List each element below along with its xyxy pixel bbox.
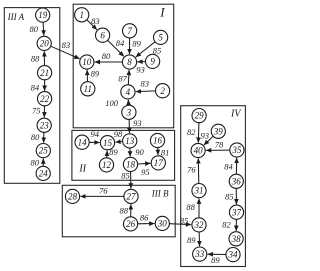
wire 27 to 28 bbox=[80, 195, 124, 197]
svg-text:10: 10 bbox=[82, 57, 92, 67]
node 31 bbox=[192, 184, 206, 198]
svg-text:80: 80 bbox=[29, 24, 38, 34]
svg-text:98: 98 bbox=[114, 129, 123, 139]
node 32 bbox=[192, 218, 206, 232]
wire 21 to 22 bbox=[44, 80, 46, 91]
svg-text:1: 1 bbox=[79, 10, 84, 20]
svg-text:90: 90 bbox=[135, 147, 144, 157]
wire 31 to 40 bbox=[197, 158, 200, 183]
svg-text:76: 76 bbox=[99, 185, 108, 195]
svg-text:4: 4 bbox=[126, 87, 131, 97]
node 10 bbox=[80, 55, 94, 69]
wire 16 to 17 bbox=[157, 148, 159, 155]
wire 2 to 4 bbox=[136, 90, 156, 93]
svg-text:2: 2 bbox=[160, 86, 165, 96]
svg-text:94: 94 bbox=[91, 129, 100, 139]
svg-text:27: 27 bbox=[127, 192, 137, 202]
node 11 bbox=[81, 82, 95, 96]
node 1 bbox=[75, 8, 89, 22]
node 30 bbox=[155, 216, 169, 230]
node 19 bbox=[36, 8, 50, 22]
wire 6 to 8 bbox=[108, 40, 124, 56]
wire 14 to 15 bbox=[89, 141, 99, 143]
node 6 bbox=[96, 28, 110, 42]
wire 36 to 37 bbox=[235, 188, 237, 204]
svg-text:26: 26 bbox=[126, 219, 136, 229]
svg-text:89: 89 bbox=[211, 255, 220, 265]
box II bbox=[72, 130, 175, 180]
wire 5 to 8 bbox=[136, 42, 155, 57]
wire 1 to 6 bbox=[87, 20, 97, 30]
svg-text:9: 9 bbox=[150, 57, 155, 67]
svg-text:39: 39 bbox=[213, 126, 224, 136]
wire 8 to 10 bbox=[95, 61, 123, 63]
svg-text:30: 30 bbox=[157, 219, 168, 229]
svg-text:76: 76 bbox=[187, 165, 196, 175]
svg-text:IV: IV bbox=[230, 108, 242, 119]
node 7 bbox=[123, 24, 137, 38]
wire 23 to 25 bbox=[43, 132, 45, 142]
wire 36 to 35 bbox=[235, 158, 237, 174]
svg-text:III A: III A bbox=[7, 12, 25, 22]
svg-text:83: 83 bbox=[91, 16, 100, 26]
svg-text:17: 17 bbox=[154, 158, 164, 168]
wire 21 to 20 bbox=[43, 51, 45, 65]
svg-text:5: 5 bbox=[158, 33, 163, 43]
svg-text:21: 21 bbox=[40, 68, 49, 78]
node 37 bbox=[229, 205, 243, 219]
wire 4 to 8 bbox=[127, 70, 130, 85]
svg-text:78: 78 bbox=[215, 140, 224, 150]
svg-text:84: 84 bbox=[224, 162, 233, 172]
wire 22 to 23 bbox=[43, 106, 45, 118]
svg-text:31: 31 bbox=[194, 186, 204, 196]
svg-text:95: 95 bbox=[141, 167, 150, 177]
svg-text:86: 86 bbox=[140, 213, 149, 223]
svg-text:11: 11 bbox=[84, 84, 92, 94]
svg-text:12: 12 bbox=[102, 160, 112, 170]
box III A bbox=[4, 8, 60, 184]
wire 24 to 25 bbox=[42, 159, 44, 167]
wire 26 to 27 bbox=[130, 204, 132, 217]
node 17 bbox=[151, 156, 165, 170]
node 24 bbox=[36, 166, 50, 180]
svg-text:35: 35 bbox=[231, 145, 242, 155]
svg-text:83: 83 bbox=[62, 40, 71, 50]
wire 26 to 30 bbox=[138, 223, 155, 225]
svg-text:88: 88 bbox=[31, 54, 40, 64]
svg-text:82: 82 bbox=[222, 219, 231, 229]
wire 7 to 8 bbox=[129, 38, 131, 54]
svg-text:75: 75 bbox=[32, 105, 41, 115]
svg-text:89: 89 bbox=[132, 39, 141, 49]
box IV bbox=[181, 106, 246, 267]
wire 3 to 4 bbox=[127, 100, 129, 105]
wire 29 to 40 bbox=[197, 123, 200, 143]
node 18 bbox=[123, 157, 137, 171]
svg-text:19: 19 bbox=[38, 10, 48, 20]
wire 18 to 17 bbox=[138, 162, 151, 165]
node 25 bbox=[36, 144, 50, 158]
node 14 bbox=[75, 135, 89, 149]
svg-text:22: 22 bbox=[40, 94, 50, 104]
node 40 bbox=[191, 143, 205, 157]
svg-text:89: 89 bbox=[187, 235, 196, 245]
wire 30 to 32 bbox=[169, 223, 191, 226]
node 21 bbox=[38, 66, 52, 80]
svg-text:87: 87 bbox=[118, 74, 127, 84]
wire 9 to 8 bbox=[137, 61, 145, 63]
node 28 bbox=[65, 189, 79, 203]
svg-text:80: 80 bbox=[102, 51, 111, 61]
svg-text:85: 85 bbox=[121, 171, 130, 181]
svg-text:24: 24 bbox=[39, 169, 49, 179]
node 35 bbox=[230, 143, 244, 157]
svg-text:85: 85 bbox=[225, 191, 234, 201]
svg-text:34: 34 bbox=[228, 250, 239, 260]
wire 35 to 40 bbox=[206, 149, 230, 151]
node 39 bbox=[211, 124, 225, 138]
node 22 bbox=[38, 92, 52, 106]
svg-text:II: II bbox=[78, 164, 86, 175]
wire 19 to 20 bbox=[42, 22, 45, 35]
svg-text:40: 40 bbox=[194, 146, 204, 156]
svg-text:28: 28 bbox=[68, 192, 78, 202]
node 3 bbox=[122, 105, 136, 119]
node 38 bbox=[229, 232, 243, 246]
svg-text:3: 3 bbox=[126, 107, 132, 117]
svg-text:15: 15 bbox=[103, 138, 113, 148]
node 23 bbox=[37, 118, 51, 132]
node 16 bbox=[150, 133, 164, 147]
wire 39 to 40 bbox=[204, 136, 213, 145]
svg-text:88: 88 bbox=[120, 206, 129, 216]
node 8 bbox=[122, 55, 136, 69]
wire 3 to 13 bbox=[128, 119, 130, 133]
svg-text:82: 82 bbox=[187, 127, 196, 137]
node 26 bbox=[124, 217, 138, 231]
wire 13 to 18 bbox=[129, 148, 131, 157]
svg-text:81: 81 bbox=[161, 147, 170, 157]
svg-text:7: 7 bbox=[127, 26, 132, 36]
svg-text:14: 14 bbox=[78, 137, 88, 147]
node 15 bbox=[100, 136, 114, 150]
svg-text:83: 83 bbox=[141, 79, 150, 89]
node 13 bbox=[123, 134, 137, 148]
wire 32 to 33 bbox=[198, 232, 200, 246]
svg-text:84: 84 bbox=[31, 83, 40, 93]
svg-text:13: 13 bbox=[125, 136, 135, 146]
svg-text:85: 85 bbox=[180, 216, 189, 226]
node 27 bbox=[124, 189, 138, 203]
node 2 bbox=[156, 84, 170, 98]
node 33 bbox=[193, 247, 207, 261]
svg-text:33: 33 bbox=[194, 249, 205, 259]
wire 37 to 38 bbox=[235, 219, 237, 231]
node 4 bbox=[121, 85, 135, 99]
svg-text:I: I bbox=[159, 4, 165, 19]
svg-text:88: 88 bbox=[186, 202, 195, 212]
svg-text:III B: III B bbox=[151, 189, 169, 199]
svg-text:36: 36 bbox=[231, 176, 242, 186]
svg-text:89: 89 bbox=[91, 69, 100, 79]
box III B bbox=[62, 185, 175, 237]
svg-text:29: 29 bbox=[195, 111, 205, 121]
node 5 bbox=[154, 30, 168, 44]
node 12 bbox=[99, 158, 113, 172]
svg-text:93: 93 bbox=[136, 64, 145, 74]
wire 20 to 10 bbox=[51, 46, 80, 59]
svg-text:80: 80 bbox=[30, 158, 39, 168]
svg-text:93: 93 bbox=[200, 130, 209, 140]
svg-text:80: 80 bbox=[31, 132, 40, 142]
node 20 bbox=[37, 36, 51, 50]
wire 13 to 15 bbox=[115, 141, 122, 144]
svg-text:18: 18 bbox=[126, 160, 136, 170]
wire 11 to 10 bbox=[86, 70, 88, 82]
wire 34 to 33 bbox=[208, 253, 226, 255]
node 29 bbox=[192, 109, 206, 123]
svg-text:23: 23 bbox=[40, 120, 50, 130]
node 36 bbox=[229, 174, 243, 188]
svg-text:38: 38 bbox=[231, 234, 242, 244]
box I bbox=[73, 4, 174, 128]
svg-text:100: 100 bbox=[105, 98, 119, 108]
wire 32 to 31 bbox=[198, 199, 200, 218]
svg-text:25: 25 bbox=[39, 146, 49, 156]
svg-text:84: 84 bbox=[116, 38, 125, 48]
svg-text:6: 6 bbox=[100, 30, 105, 40]
svg-text:93: 93 bbox=[133, 118, 142, 128]
svg-text:16: 16 bbox=[153, 136, 163, 146]
wire 18 to 27 bbox=[130, 172, 132, 189]
svg-text:20: 20 bbox=[40, 39, 50, 49]
svg-text:37: 37 bbox=[231, 207, 242, 217]
svg-text:8: 8 bbox=[127, 57, 132, 67]
svg-text:32: 32 bbox=[194, 220, 205, 230]
node 9 bbox=[146, 54, 160, 68]
node 34 bbox=[226, 248, 240, 262]
wire 12 to 15 bbox=[106, 151, 108, 158]
